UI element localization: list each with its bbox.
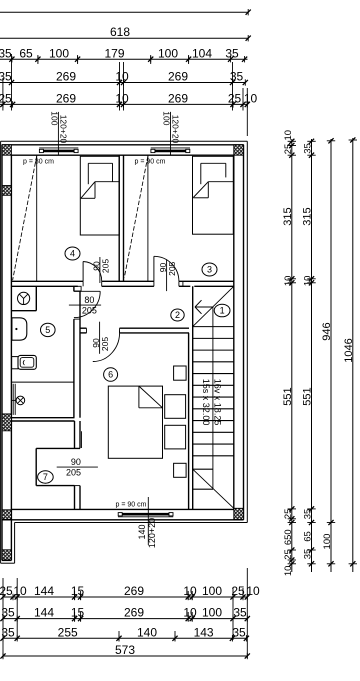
door4 leaf	[82, 262, 84, 282]
svg-text:100: 100	[49, 46, 69, 60]
svg-text:10: 10	[115, 70, 129, 84]
dimension row H 35-255-140-143-35	[3, 637, 247, 639]
bottom wall inner face	[11, 508, 233, 510]
left wall inner face	[10, 155, 12, 560]
svg-text:65: 65	[303, 531, 314, 542]
svg-text:269: 269	[124, 584, 144, 598]
stair treads	[193, 326, 234, 328]
svg-text:269: 269	[56, 70, 76, 84]
window1 leader line	[57, 112, 59, 155]
bath south wall	[11, 417, 74, 419]
svg-text:120+20: 120+20	[171, 115, 181, 144]
svg-text:10: 10	[183, 584, 197, 598]
svg-text:10: 10	[303, 276, 314, 287]
bathtub	[12, 318, 27, 340]
room label 5	[41, 323, 56, 336]
middle wall upper line	[11, 280, 83, 282]
bed room3	[193, 156, 234, 234]
stair top landing diagonal	[193, 286, 234, 326]
svg-text:4: 4	[70, 249, 75, 259]
svg-text:551: 551	[302, 387, 314, 405]
left wall outer face	[1, 145, 3, 561]
door3 leaf	[153, 256, 155, 281]
svg-text:35: 35	[233, 606, 247, 620]
svg-text:15s x 32.00: 15s x 32.00	[201, 379, 211, 426]
svg-text:618: 618	[110, 25, 130, 39]
svg-text:205: 205	[82, 305, 97, 315]
wardrobe line room4	[36, 155, 38, 281]
washbasin counter	[35, 286, 37, 310]
svg-text:10: 10	[183, 606, 197, 620]
svg-text:35: 35	[230, 70, 244, 84]
window2 leader line	[170, 112, 172, 155]
window3 leader line	[147, 497, 149, 545]
door3 jamb right	[178, 281, 180, 286]
svg-text:10: 10	[283, 130, 294, 141]
bottom row stubs	[74, 591, 76, 600]
dimension column 4 line+ticks	[352, 138, 354, 572]
svg-text:p = 90 cm: p = 90 cm	[116, 501, 147, 508]
bath-hall wall east line	[79, 291, 81, 319]
svg-text:65: 65	[19, 46, 33, 60]
svg-text:100: 100	[162, 111, 172, 125]
extension stubs row C	[37, 55, 39, 64]
wardrobe diagonal room3	[124, 156, 148, 278]
window W1 top wall	[39, 147, 78, 149]
dimension column 1 line+ticks	[291, 139, 293, 572]
door5 jamb caps	[74, 290, 81, 292]
svg-text:1: 1	[220, 306, 225, 316]
hatched pier left stub bottom	[2, 550, 11, 560]
svg-text:269: 269	[168, 92, 188, 106]
svg-text:650: 650	[283, 529, 294, 545]
roof eave outline	[1, 140, 248, 142]
svg-text:6: 6	[108, 370, 113, 380]
dimension line 618 row B	[0, 37, 248, 39]
svg-text:25: 25	[228, 92, 242, 106]
door4 jamb left	[74, 286, 81, 291]
room label 3	[202, 263, 217, 276]
shower glass panel	[12, 384, 14, 415]
svg-text:25: 25	[283, 144, 294, 155]
svg-text:120+20: 120+20	[59, 115, 69, 144]
svg-text:25: 25	[283, 509, 294, 520]
svg-text:104: 104	[192, 46, 212, 60]
double bed room6	[108, 386, 162, 458]
window W3 bottom wall	[118, 516, 173, 518]
svg-text:15: 15	[71, 606, 85, 620]
svg-text:100: 100	[202, 584, 222, 598]
dimension column 3 line+ticks	[330, 139, 332, 572]
hatched pier top-left corner	[2, 145, 11, 155]
svg-text:p = 80 cm: p = 80 cm	[23, 158, 54, 165]
svg-text:10: 10	[244, 92, 258, 106]
svg-text:80: 80	[84, 295, 94, 305]
window W2 top wall	[151, 147, 190, 149]
stair walk line	[195, 306, 213, 308]
door5 leaf	[74, 290, 100, 292]
dimension row F 25|10-144-15-269-10-100-25|10	[3, 596, 248, 598]
svg-text:10: 10	[246, 584, 260, 598]
svg-text:100: 100	[50, 111, 60, 125]
nightstand lower	[174, 463, 187, 477]
pillow room6 upper	[165, 395, 186, 419]
svg-text:205: 205	[100, 337, 110, 351]
svg-text:269: 269	[56, 92, 76, 106]
wardrobe line room3	[147, 155, 149, 281]
dimension row G 35-144-15-269-10-100-35	[3, 618, 248, 620]
dimension row I 573	[3, 655, 248, 657]
svg-text:10: 10	[115, 92, 129, 106]
wardrobe diagonal room4	[13, 156, 37, 280]
svg-text:10: 10	[283, 566, 294, 577]
door7 jamb caps	[75, 447, 82, 449]
middle wall lower line	[11, 285, 77, 287]
hatched pier bottom-left corner	[2, 510, 11, 520]
svg-text:5: 5	[45, 325, 50, 335]
svg-text:25: 25	[283, 549, 294, 560]
stair walk arrow	[195, 300, 202, 307]
svg-text:140: 140	[137, 625, 157, 639]
top wall outer face	[2, 144, 244, 146]
svg-text:35: 35	[0, 70, 12, 84]
svg-text:16v x 18.25: 16v x 18.25	[213, 379, 223, 426]
svg-text:205: 205	[66, 468, 81, 478]
svg-text:3: 3	[207, 265, 212, 275]
dimension row D 35-269-10-269-35	[0, 82, 245, 84]
svg-text:7: 7	[43, 472, 48, 482]
door5 swing arc	[74, 291, 100, 317]
bed room4	[80, 156, 119, 235]
hatched pier top-right corner	[234, 145, 244, 155]
pillow room6 lower	[165, 425, 186, 449]
svg-text:140: 140	[137, 524, 147, 539]
svg-text:179: 179	[104, 46, 124, 60]
svg-text:315: 315	[302, 207, 314, 225]
extension line x=2.9	[2, 78, 4, 111]
door3 swing arc	[154, 256, 179, 281]
svg-text:90: 90	[71, 457, 81, 467]
svg-text:1046: 1046	[343, 338, 355, 362]
door6 swing arc	[93, 331, 120, 362]
svg-text:15: 15	[71, 584, 85, 598]
extension lines middle wall	[119, 62, 121, 111]
door4 jamb right	[101, 281, 103, 286]
bath-hall wall west line	[73, 286, 75, 291]
dimension line overall top row A	[0, 11, 248, 13]
dimension column 2 line+ticks	[311, 139, 313, 572]
svg-text:35: 35	[232, 625, 246, 639]
svg-text:100: 100	[322, 534, 333, 550]
stair left-half treads	[193, 468, 213, 470]
svg-text:35: 35	[303, 509, 314, 520]
svg-text:10: 10	[283, 276, 294, 287]
svg-text:35: 35	[0, 46, 12, 60]
svg-text:35: 35	[303, 549, 314, 560]
room label 2	[171, 309, 184, 321]
svg-text:144: 144	[34, 584, 54, 598]
stair bottom diagonal	[193, 469, 234, 508]
dimension row E 25|10-269-10-269-25|10	[0, 103, 247, 105]
svg-text:573: 573	[115, 643, 135, 657]
svg-text:946: 946	[321, 322, 333, 340]
left wall bottom cap	[2, 559, 11, 561]
wall rooms4-3	[118, 155, 120, 281]
room label 7	[38, 471, 54, 483]
svg-text:100: 100	[202, 606, 222, 620]
door4 swing arc	[83, 262, 102, 282]
svg-text:35: 35	[225, 46, 239, 60]
top wall inner face	[11, 154, 233, 156]
room7 storage box	[36, 447, 80, 449]
svg-text:315: 315	[282, 207, 294, 225]
hatched pier left wall lower	[2, 414, 11, 431]
bottom extension lines	[2, 578, 4, 658]
svg-text:551: 551	[282, 387, 294, 405]
svg-text:144: 144	[34, 606, 54, 620]
toilet	[12, 357, 18, 369]
shower area line	[11, 381, 74, 383]
extension line right wall outer	[242, 88, 244, 111]
stair west wall	[192, 286, 194, 509]
dimension row C 35-65-100-179-100-104-35	[0, 58, 248, 60]
svg-text:205: 205	[167, 261, 177, 275]
hatched pier left wall upper	[2, 186, 11, 196]
svg-text:25: 25	[0, 92, 12, 106]
nightstand upper	[174, 366, 187, 380]
svg-text:255: 255	[58, 625, 78, 639]
svg-text:2: 2	[175, 310, 180, 320]
svg-text:100: 100	[158, 46, 178, 60]
svg-text:p = 90 cm: p = 90 cm	[135, 158, 166, 165]
bottom wall outer face	[2, 519, 244, 521]
svg-text:205: 205	[100, 259, 110, 273]
svg-text:143: 143	[194, 625, 214, 639]
svg-text:35: 35	[303, 143, 314, 154]
right wall outer face	[243, 145, 245, 520]
room label 4	[65, 247, 80, 260]
svg-text:269: 269	[124, 606, 144, 620]
svg-text:25: 25	[0, 584, 13, 598]
extension line right wall inner	[232, 62, 234, 111]
washbasin bowl	[18, 292, 30, 304]
shower drain	[16, 396, 25, 405]
door3 jamb left	[153, 281, 155, 286]
right wall inner face	[233, 155, 235, 509]
svg-text:10: 10	[13, 584, 27, 598]
extension line left wall inner	[11, 54, 13, 111]
room label 6	[104, 368, 118, 382]
hatched pier bottom-right corner	[234, 508, 244, 519]
hall south wall	[80, 327, 87, 329]
room label 1	[214, 304, 230, 317]
svg-text:269: 269	[168, 70, 188, 84]
